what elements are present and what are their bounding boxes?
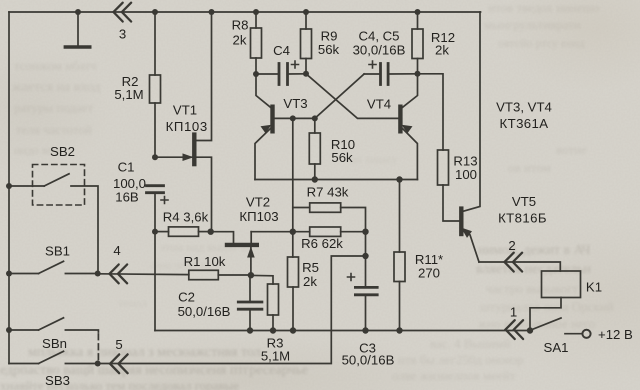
switch SB1 xyxy=(9,261,98,273)
resistor R12 xyxy=(412,12,423,74)
resistor R8 xyxy=(251,12,262,74)
svg-text:VT4: VT4 xyxy=(367,97,391,112)
svg-text:R6 62k: R6 62k xyxy=(301,236,343,251)
svg-text:C1: C1 xyxy=(118,160,135,175)
capacitor C4 xyxy=(256,61,306,85)
break chevron 4 xyxy=(110,265,128,284)
svg-text:VT3, VT4: VT3, VT4 xyxy=(496,100,552,115)
break chevron 1 xyxy=(506,320,524,339)
wire cross-coupling C5 to VT3 base xyxy=(273,74,364,118)
svg-text:VT2: VT2 xyxy=(246,195,270,210)
svg-text:C4: C4 xyxy=(273,43,290,58)
resistor R10 xyxy=(309,118,320,179)
wire sensor line with chevron 4 to R1 xyxy=(98,273,189,276)
svg-text:VT3: VT3 xyxy=(283,96,307,111)
svg-text:КП103: КП103 xyxy=(239,209,278,224)
wire top rail xyxy=(9,11,481,13)
svg-text:56k: 56k xyxy=(331,150,353,165)
resistor R6 xyxy=(293,227,366,236)
capacitor C3 xyxy=(348,256,378,331)
resistor R13 xyxy=(438,150,461,221)
svg-text:КТ816Б: КТ816Б xyxy=(498,211,547,226)
svg-text:270: 270 xyxy=(418,266,440,281)
transistor VT3 xyxy=(255,74,273,180)
svg-text:SB2: SB2 xyxy=(50,144,75,159)
capacitor C5 xyxy=(364,61,417,85)
svg-text:SB3: SB3 xyxy=(45,373,70,388)
relay coil K1 xyxy=(542,271,581,298)
svg-text:3: 3 xyxy=(119,27,126,42)
svg-text:R4 3,6k: R4 3,6k xyxy=(163,210,209,225)
svg-text:КП103: КП103 xyxy=(166,119,208,134)
svg-text:VT1: VT1 xyxy=(173,103,197,118)
svg-text:КТ361А: КТ361А xyxy=(500,116,549,131)
svg-text:R8: R8 xyxy=(232,18,249,33)
wire VT2 drain to R6 node xyxy=(251,231,293,233)
wire sensor common with chevron 5 xyxy=(98,256,366,364)
resistor R1 xyxy=(189,270,251,279)
wire cross-coupling C4 to VT4 base xyxy=(306,74,400,119)
svg-text:C2: C2 xyxy=(178,290,195,305)
svg-text:2k: 2k xyxy=(303,274,317,289)
svg-text:2: 2 xyxy=(508,238,515,253)
svg-text:5: 5 xyxy=(115,337,122,352)
switch SB3 xyxy=(9,351,98,363)
resistor R4 xyxy=(155,227,211,236)
switch SBn xyxy=(9,318,98,332)
transistor VT5 xyxy=(461,12,480,262)
svg-text:VT5: VT5 xyxy=(512,194,536,209)
capacitor C1 xyxy=(147,186,169,331)
transistor VT1 xyxy=(155,135,212,232)
svg-text:50,0/16В: 50,0/16В xyxy=(342,353,395,368)
terminal +12V xyxy=(582,330,590,338)
break chevron 3 xyxy=(114,3,132,22)
wire R12 node to R13 xyxy=(418,74,444,150)
svg-text:R5: R5 xyxy=(302,260,319,275)
wire bottom rail xyxy=(155,330,530,332)
svg-text:2k: 2k xyxy=(435,43,449,58)
wire VT3 base chain vertical xyxy=(292,118,294,257)
svg-text:100: 100 xyxy=(455,167,477,182)
svg-text:K1: K1 xyxy=(586,280,602,295)
switch SA1 xyxy=(532,318,582,334)
transistor VT2 xyxy=(211,232,257,275)
resistor R3 xyxy=(268,284,279,331)
break chevron 5 xyxy=(110,354,128,373)
transistor VT4 xyxy=(400,74,417,180)
wire left rail xyxy=(8,12,10,364)
resistor R11 xyxy=(394,180,405,331)
svg-text:SA1: SA1 xyxy=(544,340,569,355)
wire emitter rail xyxy=(255,179,417,181)
svg-text:4: 4 xyxy=(113,243,120,258)
svg-text:SBn: SBn xyxy=(42,336,67,351)
wire K1 to bottom rail xyxy=(530,298,561,331)
svg-text:50,0/16В: 50,0/16В xyxy=(178,304,231,319)
capacitor C2 xyxy=(238,275,262,330)
resistor R7 xyxy=(293,203,366,256)
svg-text:5,1M: 5,1M xyxy=(261,349,290,364)
resistor R5 xyxy=(288,257,299,331)
break chevron 2 xyxy=(505,253,523,272)
svg-text:30,0/16В: 30,0/16В xyxy=(353,43,406,58)
svg-text:R7 43k: R7 43k xyxy=(307,185,349,200)
dashed link SBn to SB3 xyxy=(97,334,99,361)
resistor R2 xyxy=(150,12,161,157)
svg-text:C4, C5: C4, C5 xyxy=(358,29,399,44)
resistor R9 xyxy=(301,12,312,74)
svg-text:+12 В: +12 В xyxy=(598,327,633,342)
svg-text:56k: 56k xyxy=(318,42,340,57)
svg-text:R1 10k: R1 10k xyxy=(184,254,226,269)
svg-text:2k: 2k xyxy=(233,33,247,48)
wire VT1 drain to top rail xyxy=(195,12,212,141)
svg-text:SB1: SB1 xyxy=(45,244,70,259)
ground xyxy=(65,12,89,47)
svg-text:5,1M: 5,1M xyxy=(114,87,143,102)
wire VT2 gate node to R3 xyxy=(251,275,273,284)
wire VT5 emitter to K1 with chevron 2 xyxy=(479,262,560,271)
svg-text:16В: 16В xyxy=(115,190,139,205)
switch SB2 xyxy=(9,165,98,274)
svg-text:1: 1 xyxy=(510,305,517,320)
